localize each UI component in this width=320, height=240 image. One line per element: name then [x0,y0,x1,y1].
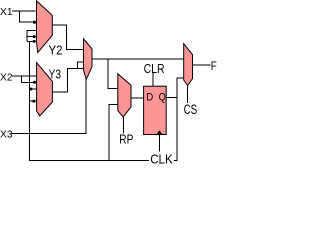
mux Y2 (U1) [37,1,53,53]
label CLR with white box [144,62,166,73]
wire mux1 output to mux3 [53,25,84,49]
junction dot mux1 in2 [33,21,36,24]
mux U5 (RP mux) [118,74,131,117]
wire X3 horizontal [12,79,87,133]
wire CLK [158,135,160,153]
junction dot mux2 in4 [32,100,35,103]
wire feedback column [30,41,184,160]
wire mux2 input4 [30,100,37,102]
wire mux2 input3 [30,88,37,90]
svg-text:F: F [211,59,217,73]
wire mux5 input2 from bottom [109,105,118,161]
wire X2 branch down [22,76,37,82]
junction dot mux2 in3 [30,88,33,91]
flip-flop U6 [144,86,167,134]
wire F output [193,64,211,66]
mux Y3 (U2) [37,63,53,116]
svg-text:Y2: Y2 [49,42,63,57]
wire mux5 output to D [131,97,144,99]
svg-text:Q: Q [159,92,167,104]
junction dot mux1 in4 [33,35,36,38]
svg-text:X1: X1 [0,6,13,18]
wire Y3 branch to mux3 input2 [78,62,84,69]
wire mux1 input3/4 bracket [27,31,36,42]
wire X1 horizontal [12,10,37,12]
svg-text:Y3: Y3 [49,67,62,82]
svg-text:D: D [146,92,153,104]
junction dot mux1 in5 [33,40,36,43]
svg-text:CLK: CLK [150,152,173,165]
clock triangle of flip-flop [156,130,162,134]
label CLK with white box [149,152,174,164]
wire mux2 output to mux3 [52,69,83,93]
svg-text:CLR: CLR [144,61,165,76]
mux U4 (output mux) [184,44,193,86]
wire branch to mux5 input1 [108,59,118,89]
wire mux4 select CS [187,86,189,104]
junction dot mux2 in2 [33,81,36,84]
wire mux1 input5 [27,40,36,42]
wire CLR [152,73,154,87]
svg-text:RP: RP [119,132,133,146]
mux U3 [84,39,93,80]
wire X1 branch down [20,11,37,22]
svg-text:CS: CS [184,102,198,117]
wire mux1 input4 [27,36,36,38]
svg-text:X2: X2 [0,71,13,83]
wire Q output [166,97,177,99]
wire mux3 output long [92,58,184,60]
svg-text:X3: X3 [0,128,13,140]
wire X2 horizontal [12,75,37,77]
wire mux5 select RP [122,117,124,134]
